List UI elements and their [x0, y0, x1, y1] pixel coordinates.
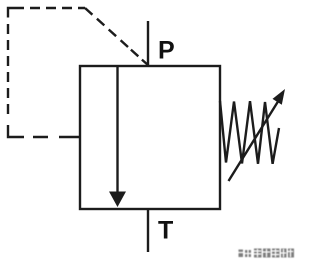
wire: top horizontal dashed segment	[30, 7, 85, 9]
flow path arrowhead	[109, 192, 126, 208]
wire T port line	[147, 209, 149, 252]
wire: bottom horizontal dashed segment	[33, 136, 79, 138]
wire: bottom-left corner L dash	[8, 125, 24, 137]
wire: diagonal dashed segment	[85, 8, 148, 65]
pilot line (dashed), drawn as explicit dashes	[8, 8, 148, 137]
valve body box	[80, 66, 220, 209]
adjustment arrowhead	[273, 89, 286, 105]
wire P port line	[147, 21, 149, 66]
wire: top-left corner L dash	[8, 8, 24, 18]
svg-text:T: T	[158, 217, 173, 245]
spring	[220, 101, 279, 164]
svg-text:P: P	[158, 37, 175, 65]
wire: left vertical dashed segment	[7, 24, 9, 114]
flow path arrow (shaft)	[116, 66, 118, 194]
adjustment arrow shaft	[229, 102, 279, 182]
